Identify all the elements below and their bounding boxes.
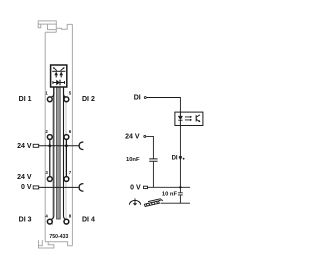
- svg-text:6: 6: [69, 129, 72, 134]
- junction dot pin2: [48, 144, 51, 147]
- diode D3 in LED box: [53, 82, 65, 84]
- capacitor C1 plates: [149, 159, 157, 161]
- 0V bus line: [39, 186, 79, 188]
- wire capacitor C2 to chassis line: [179, 195, 181, 203]
- module housing top profile: [38, 21, 72, 32]
- 24V field terminal box: [33, 144, 39, 147]
- DI terminal circle: [144, 97, 146, 99]
- pin 7 terminal circle: [64, 177, 69, 182]
- svg-text:2: 2: [45, 129, 48, 134]
- svg-text:10nF: 10nF: [126, 157, 140, 163]
- terminal channel line right: [65, 101, 67, 225]
- svg-text:DI 2: DI 2: [82, 96, 95, 103]
- svg-text:3: 3: [45, 170, 48, 175]
- 0V terminal box: [144, 186, 148, 188]
- capacitor C2 plates: [178, 193, 183, 195]
- optocoupler phototransistor: [195, 115, 197, 121]
- pin 2 terminal circle: [47, 135, 52, 140]
- pin 6 terminal circle: [64, 135, 69, 140]
- terminal channel line left: [52, 101, 54, 225]
- junction dot pin6: [65, 144, 68, 147]
- pin 1 terminal circle: [47, 97, 52, 102]
- module housing bottom profile / DIN foot: [39, 240, 73, 248]
- wire DI4 (vertical to pin8 hook): [64, 87, 67, 220]
- LED indicator box U1: [51, 65, 67, 87]
- optocoupler LED: [178, 115, 182, 117]
- module housing right edge: [71, 24, 73, 245]
- optocoupler light arrows: [185, 117, 191, 120]
- wire pin6 to pin7 (24V bus right): [65, 140, 67, 177]
- chassis ground symbol (hatched slab): [144, 199, 163, 207]
- svg-text:0 V: 0 V: [130, 185, 141, 192]
- pin 4 terminal circle: [47, 219, 52, 224]
- svg-text:5: 5: [69, 91, 72, 96]
- chassis line: [161, 202, 191, 204]
- svg-text:7: 7: [69, 170, 72, 175]
- 24V bus line: [39, 145, 79, 147]
- svg-text:750-433: 750-433: [49, 234, 68, 240]
- 24V terminal circle: [144, 135, 146, 137]
- wire pin2 to pin3 (24V bus left): [49, 140, 51, 177]
- LED D2 (right, arrow up-right): [59, 72, 63, 76]
- wire optocoupler to 0V: [179, 126, 181, 188]
- LED common cathode line: [52, 70, 65, 72]
- wire DI3 (vertical to pin4 hook): [51, 87, 54, 220]
- bus arrow symbol: [179, 156, 182, 158]
- wire DI2 (pin5 to LED box): [64, 87, 67, 97]
- svg-text:DI: DI: [172, 156, 178, 162]
- svg-text:1: 1: [45, 91, 48, 96]
- 0V line (schematic): [148, 186, 191, 188]
- svg-text:10 nF: 10 nF: [162, 191, 178, 197]
- svg-text:24 V: 24 V: [17, 143, 32, 150]
- svg-text:DI 1: DI 1: [19, 96, 32, 103]
- pin 3 terminal circle: [47, 177, 52, 182]
- pin 8 terminal circle: [64, 219, 69, 224]
- wire DI to optocoupler: [147, 98, 181, 113]
- svg-text:4: 4: [45, 213, 48, 218]
- LED D1 (left, arrow up-left): [54, 72, 58, 76]
- wire 0V to capacitor C2: [179, 187, 181, 192]
- wire DI1 (pin1 to LED box): [51, 87, 54, 97]
- ground symbol (system): [129, 200, 140, 204]
- 0V power jumper contact: [79, 184, 83, 192]
- module housing left edge: [44, 32, 46, 242]
- svg-text:DI: DI: [134, 95, 141, 102]
- svg-text:24 V: 24 V: [17, 174, 32, 181]
- svg-text:DI 3: DI 3: [19, 217, 32, 224]
- svg-text:8: 8: [69, 213, 72, 218]
- 24V power jumper contact: [79, 142, 83, 150]
- svg-text:24 V: 24 V: [125, 134, 140, 141]
- optocoupler box U2: [175, 112, 203, 125]
- wire 24V to capacitor C1: [146, 136, 153, 158]
- pin 5 terminal circle: [64, 97, 69, 102]
- wire capacitor C1 to 0V line: [152, 162, 154, 188]
- bus arrow dot: [183, 158, 185, 160]
- junction dot 0V: [179, 186, 181, 188]
- svg-text:0 V: 0 V: [21, 184, 32, 191]
- central contact rail: [57, 87, 61, 219]
- 0V field terminal box: [33, 186, 39, 189]
- svg-text:DI 4: DI 4: [82, 217, 95, 224]
